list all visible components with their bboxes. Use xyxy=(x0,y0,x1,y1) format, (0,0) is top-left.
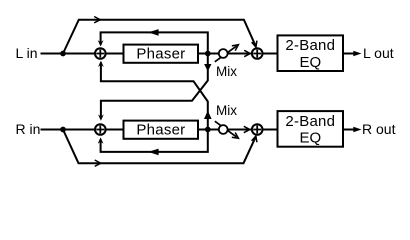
wire: R in lead xyxy=(41,129,96,131)
arrowhead: L dry line mid (right) xyxy=(94,17,100,23)
summing node U2 (L output adder) xyxy=(252,48,263,59)
block: L Phaser xyxy=(124,45,199,63)
arrowhead: R dry line mid (right) xyxy=(95,160,101,166)
svg-text:EQ: EQ xyxy=(299,130,321,147)
wire: L dry bypass path (top) xyxy=(63,20,256,54)
mix pot P1 (L mix control) xyxy=(215,45,239,62)
svg-text:Mix: Mix xyxy=(216,64,237,79)
svg-text:L in: L in xyxy=(16,45,38,61)
wire: R sum1 to Phaser xyxy=(106,129,124,131)
arrowhead: cross-feed R up xyxy=(204,111,212,119)
summing node U4 (R output adder) xyxy=(252,124,263,135)
svg-text:L out: L out xyxy=(363,45,394,61)
wire: cross-feed L to R (via X crossover) xyxy=(101,54,208,119)
junction node B (L phaser output split) xyxy=(205,51,211,57)
wire: R feedback path xyxy=(101,130,208,152)
arrowhead: R dry into sum2 bottom xyxy=(252,136,257,142)
arrowhead: into R sum1 bottom xyxy=(98,137,104,143)
wire: L sum1 to Phaser xyxy=(106,53,124,55)
arrowhead: cross-feed L down xyxy=(204,64,211,71)
block: L 2-Band EQ xyxy=(278,35,344,71)
wire: R dry bypass path (bottom) xyxy=(63,130,256,164)
wire: R Phaser to sum2 (through mix pot) xyxy=(198,129,251,131)
arrowhead: before L sum2 (right) xyxy=(244,50,250,56)
svg-text:EQ: EQ xyxy=(299,54,321,71)
arrowhead: into L sum1 bottom xyxy=(98,61,104,67)
wire: L in lead xyxy=(41,53,96,55)
svg-text:2-Band: 2-Band xyxy=(285,113,335,130)
wire: L Phaser to sum2 (through mix pot) xyxy=(198,53,251,55)
wire: cross-feed R to L (via X crossover) xyxy=(101,63,208,130)
wire: R sum2 to 2-Band EQ xyxy=(263,129,278,131)
svg-text:Phaser: Phaser xyxy=(136,122,185,139)
junction node A (L in split) xyxy=(60,51,66,57)
mix pot P2 (R mix control) xyxy=(215,121,239,138)
summing node U3 (R pre-phaser adder) xyxy=(95,124,106,135)
wire: L feedback path xyxy=(101,32,208,53)
arrowhead: R out xyxy=(353,127,361,133)
wire: L sum2 to 2-Band EQ xyxy=(263,53,278,55)
svg-text:Mix: Mix xyxy=(216,103,237,118)
wire: R EQ output lead xyxy=(343,129,355,131)
svg-text:Phaser: Phaser xyxy=(136,46,185,63)
block: R 2-Band EQ xyxy=(278,111,344,147)
arrowhead: into R sum1 top xyxy=(98,114,104,120)
arrowhead: R feedback left xyxy=(148,149,158,156)
arrowhead: into L sum1 top xyxy=(98,40,104,46)
arrowhead: before R sum2 (right) xyxy=(244,126,250,132)
junction node B' (R phaser output split) xyxy=(205,127,211,133)
wire: L EQ output lead xyxy=(343,53,355,55)
svg-text:R out: R out xyxy=(362,121,396,137)
block: R Phaser xyxy=(124,121,199,139)
arrowhead: L dry into sum2 top xyxy=(252,41,257,47)
arrowhead: L out xyxy=(353,51,361,57)
summing node U1 (L pre-phaser adder) xyxy=(95,48,106,59)
svg-text:R in: R in xyxy=(16,121,41,137)
arrowhead: L feedback left xyxy=(148,29,158,36)
svg-text:2-Band: 2-Band xyxy=(285,37,335,54)
junction node A' (R in split) xyxy=(60,127,66,133)
